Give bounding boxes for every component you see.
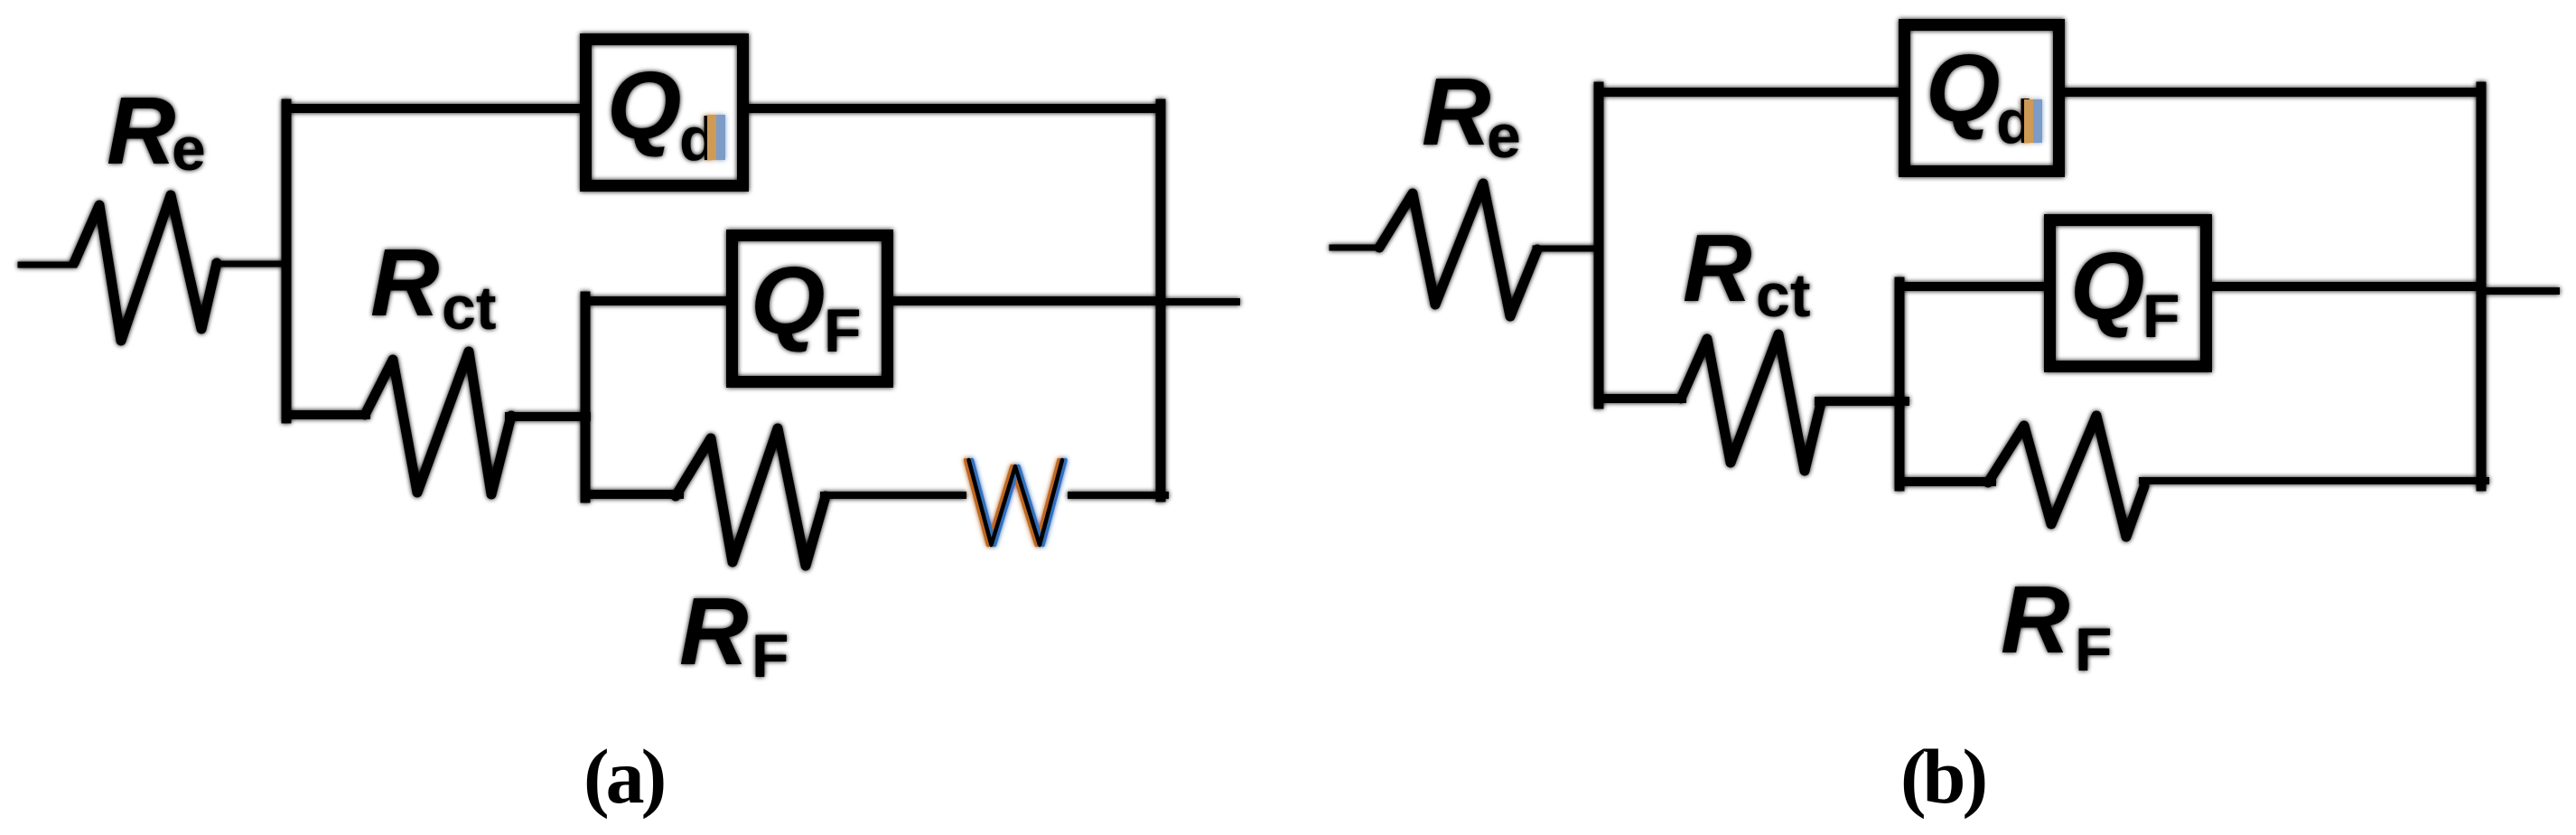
svg-text:F: F [2142,282,2180,351]
svg-text:ct: ct [442,274,496,342]
wire bottom branch left (b) [1899,477,1992,486]
svg-text:F: F [2075,615,2113,684]
right vertical (a) [1156,104,1166,497]
Warburg W (a) black core [969,460,1063,545]
circuit a : input wire [21,262,74,268]
svg-text:Q: Q [751,248,825,354]
Warburg W (a) orange fringe [966,460,1059,545]
resistor Re (b) zigzag [1379,183,1537,316]
wire RF to right vertical (b) [2142,477,2486,484]
wire middle branch left (b) [1599,394,1682,403]
inner left vertical (a) [581,296,591,498]
wire Rct to inner node (a) [509,412,586,421]
wire RF to W (a) [824,492,963,499]
wire middle branch left (a) [286,410,366,419]
svg-text:R: R [1683,215,1752,322]
wire QF branch left (a) [585,296,732,305]
wire QF branch right (b) [2212,282,2481,291]
svg-text:R: R [107,78,176,184]
CPE QF box (a) [733,236,888,382]
wire Re to node (a) [215,261,287,267]
CPE Qdl box (b) [1905,25,2059,172]
resistor Rct (b) zigzag [1681,334,1821,471]
wire top branch right (a) [749,104,1161,113]
wire QF branch left (b) [1899,282,2050,291]
wire top branch left (b) [1599,88,1905,97]
wire bottom branch left (a) [585,490,679,499]
inner left vertical (b) [1895,282,1905,486]
svg-text:R: R [2001,567,2070,673]
svg-text:Q: Q [2070,233,2144,340]
circuit b : input wire [1332,245,1380,251]
svg-text:Q: Q [607,52,681,159]
wire QF branch right (a) [893,296,1161,305]
CPE Qdl box (a) [586,40,743,186]
wire Re to node (b) [1535,246,1600,252]
svg-text:ct: ct [1756,261,1810,330]
svg-text:(b): (b) [1900,733,1984,820]
node / left vertical (a) [282,104,292,418]
colored l of Qdl (b) [2024,99,2033,143]
resistor Rct (a) zigzag [365,352,511,494]
svg-text:F: F [824,296,862,365]
resistor RF (b) zigzag [1988,416,2144,537]
svg-text:R: R [1422,59,1491,165]
right vertical (b) [2477,87,2487,486]
output wire (a) [1161,298,1237,305]
node / left vertical (b) [1594,87,1604,404]
CPE QF box (b) [2050,220,2207,367]
wire Rct to inner node (b) [1819,397,1905,406]
svg-text:e: e [1487,102,1521,171]
wire top branch left (a) [286,104,586,113]
wire W to right vertical (a) [1071,492,1165,499]
svg-text:R: R [679,578,749,685]
resistor RF (a) zigzag [676,428,826,566]
svg-text:Q: Q [1926,35,2000,142]
output wire (b) [2481,287,2556,295]
resistor Re (a) zigzag [74,195,217,341]
svg-text:(a): (a) [583,733,664,820]
Warburg W (a) blue fringe [972,460,1066,545]
svg-text:e: e [172,115,206,183]
wire top branch right (b) [2065,88,2481,97]
svg-text:F: F [751,622,789,690]
colored l of Qdl (a) [707,115,716,160]
svg-text:R: R [370,230,440,336]
